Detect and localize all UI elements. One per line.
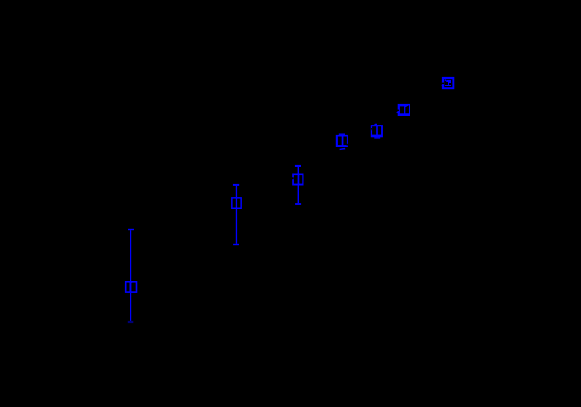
resistor R2: [231, 184, 242, 245]
resistor R3: [292, 165, 304, 205]
pin 2 pad: [295, 203, 301, 205]
resistor R3 body: [292, 174, 303, 186]
pin 1 pad: [233, 184, 239, 186]
wire: [130, 293, 131, 321]
wire: [340, 148, 345, 151]
component U1: [441, 77, 454, 89]
wire: [397, 111, 399, 112]
component U4: [336, 134, 348, 150]
pin 2 pad: [233, 244, 239, 245]
wire: [298, 186, 299, 204]
resistor R2 body: [231, 197, 242, 209]
pin 1: [374, 124, 377, 125]
resistor R1 body: [125, 281, 137, 293]
resistor R1: [125, 229, 137, 323]
wire: [441, 84, 444, 86]
wire: [236, 186, 237, 197]
pin 2 pad: [128, 321, 134, 323]
pin 1 pad: [295, 165, 301, 167]
pin 2: [374, 137, 380, 138]
wire: [236, 209, 237, 244]
component U3: [371, 124, 383, 139]
wire: [130, 230, 131, 281]
wire: [298, 167, 299, 174]
component U2: [397, 104, 410, 116]
pin 1: [339, 134, 345, 135]
pin 1 pad: [128, 229, 134, 230]
